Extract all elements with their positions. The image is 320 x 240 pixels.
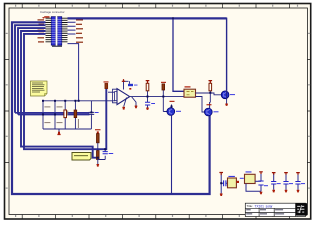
tiny blue label right of Q1: [176, 111, 181, 112]
wire stubs J1 right side: [68, 22, 76, 34]
resistor R7: [97, 134, 100, 143]
capacitor C10 column: [285, 174, 287, 190]
resistor R9 above W5 riser: [105, 84, 108, 89]
ground diagonal below op-amp: [124, 98, 127, 107]
junction dot opto/R6 node: [209, 92, 211, 94]
diode D2 column: [163, 90, 167, 112]
tiny designator labels network: [44, 106, 98, 128]
resistor R2: [64, 110, 67, 118]
tiny blue label C6: [109, 153, 114, 154]
ground diagonal from output: [132, 97, 137, 106]
svg-text:Title:: Title:: [247, 204, 254, 208]
IC U3 (yellow box): [228, 178, 237, 188]
power flag P6 above C9: [272, 172, 276, 175]
tiny red label above Q2: [207, 104, 212, 105]
tiny blue label above U4: [246, 171, 252, 172]
op-amp input staple brackets: [113, 89, 118, 103]
opto U2: [184, 89, 196, 97]
wire stubs R2: [64, 101, 66, 129]
wire column bottom: [97, 160, 99, 165]
label box L1 (yellow): [72, 153, 91, 161]
wire bus top: J1 row0 right to big loop: [68, 17, 227, 19]
wire W6: J1 bottom right pin down to op-amp input rail: [68, 44, 79, 101]
tiny red label above D2: [161, 82, 166, 83]
capacitor C6 hanging from W5 corner: [98, 149, 105, 159]
IC U4 (yellow box small): [245, 174, 256, 183]
junction dot loop split: [172, 17, 174, 19]
red terminal below C9: [272, 190, 275, 193]
junction dot column/W4: [97, 157, 99, 159]
wire loop right vertical down to Q3: [226, 18, 228, 91]
wire rail top (runs to op-amp plus input): [43, 100, 115, 102]
transistor Q3: [221, 91, 229, 99]
wire bus W1 from J1 pin row0 down left side to bottom rail, up to Q2: [12, 22, 210, 194]
resistor R5 column: [147, 91, 149, 97]
svg-text:Carriage connector: Carriage connector: [40, 10, 65, 14]
logo glyph: [297, 205, 304, 213]
tiny blue label C8: [264, 185, 268, 186]
tiny red label above U2: [185, 86, 191, 87]
wire stubs C3: [90, 101, 92, 129]
tiny red mark below C4: [129, 88, 131, 90]
resistor R8: [97, 151, 100, 160]
tiny red label above R9: [104, 81, 109, 82]
capacitor C3 plates: [89, 112, 95, 114]
tiny blue label right of C5: [151, 103, 155, 104]
capacitor C9 column: [273, 174, 275, 190]
tiny blue label right of U3: [240, 178, 244, 179]
red terminal below C10: [285, 190, 288, 193]
junction dot R5/rail: [147, 96, 149, 98]
ground terminal G4 below Q3: [225, 104, 228, 106]
wire U4 loop down to C8: [246, 184, 261, 192]
op-amp input wires: [108, 91, 115, 93]
transistor Q2: [204, 108, 212, 116]
junction dot W5/W4 column: [104, 148, 106, 150]
tiny blue label right of Q3: [230, 94, 235, 95]
red terminal below network: [57, 132, 60, 136]
connector J1 right net labels: [76, 19, 83, 43]
wire opto bottom right to Q2 base: [196, 97, 206, 113]
capacitor C7 plates (vertical): [224, 180, 226, 186]
title block: [245, 203, 305, 216]
tiny blue label C10: [289, 183, 293, 184]
diode D1 (filled): [74, 110, 77, 118]
junction dot D2/rail: [162, 96, 164, 98]
power flag P2 above R5: [146, 80, 150, 83]
junction dot C7: [220, 182, 222, 184]
wire opto right top to R6 column and Q3 base: [196, 93, 222, 95]
connector J1 body bars: [51, 17, 55, 46]
svg-text:TX101_solar: TX101_solar: [255, 204, 274, 208]
tiny blue label C9: [277, 183, 281, 184]
tiny label C4: [134, 84, 138, 87]
capacitor C4 (tantalum block): [128, 84, 133, 86]
junction dots resistor network: [42, 100, 92, 116]
wire stubs D1: [74, 101, 76, 129]
wire bus W2 tail into mid rail: [15, 112, 90, 114]
capacitor C5 below rail: [147, 98, 149, 108]
wire column mid: [97, 143, 99, 151]
power flag P3 above R6: [209, 80, 213, 83]
wire vertical B: [54, 101, 56, 129]
wire U4 right pin to C8: [255, 180, 261, 182]
ground terminal G5: [97, 164, 100, 167]
wire R6 bottom to node: [209, 91, 211, 93]
wire rail bottom: [43, 128, 91, 130]
net arrow marker left of connector top: [42, 16, 50, 18]
red terminal below C11: [297, 190, 300, 193]
power flag P7 above C10: [284, 172, 288, 175]
power flag P4: [219, 172, 223, 175]
connector J1 pin stubs: [46, 18, 68, 42]
junction dots on rail96.5: [171, 106, 173, 108]
wire vertical A: [42, 101, 44, 129]
resistor R6: [209, 83, 212, 91]
capacitor C8 column: [260, 174, 262, 192]
wire bus W3: [18, 28, 46, 114]
tiny red label above column: [95, 129, 101, 130]
op-amp power wire up: [124, 81, 129, 89]
transistor Q1: [171, 105, 173, 109]
wire bus W2: [15, 25, 46, 113]
ground terminal G6 below P4 wire: [220, 193, 223, 196]
wire bus W4: [21, 31, 98, 158]
power flag P1: [122, 79, 125, 82]
tiny red label above Q1: [170, 101, 175, 102]
connector J1 left net labels: [38, 19, 45, 42]
tiny blue label above U3: [228, 176, 235, 177]
op-amp U1: [117, 89, 130, 105]
resistor network rails: [43, 101, 115, 129]
wire bus W3 tail into mid rail: [18, 114, 90, 116]
title block row2 labels: [246, 209, 284, 214]
red cap top of column: [97, 131, 99, 133]
wire stub to terminal: [58, 129, 60, 132]
tiny blue label right of Q2: [214, 111, 219, 112]
power flag P8 above C11: [296, 172, 300, 175]
logo box: [296, 203, 308, 215]
note N1 (yellow sticky note): [31, 81, 48, 96]
wire: big loop left branch down to opto: [173, 18, 184, 91]
wire bus W5: [24, 34, 106, 149]
wire P4 down and to cap C7: [221, 175, 227, 194]
connector J1 bottom label: [52, 46, 62, 47]
op-amp output rail: [130, 96, 184, 98]
ground terminal G2: [135, 106, 138, 109]
power flag P5 above C8: [259, 171, 263, 174]
red terminal below C8: [260, 192, 263, 195]
ground terminal G1: [122, 107, 125, 110]
capacitor C11 column: [297, 174, 299, 190]
ground terminal G3 below C5: [146, 108, 149, 110]
tiny blue label C11: [301, 183, 305, 184]
U3 right pin red mark: [236, 181, 239, 183]
